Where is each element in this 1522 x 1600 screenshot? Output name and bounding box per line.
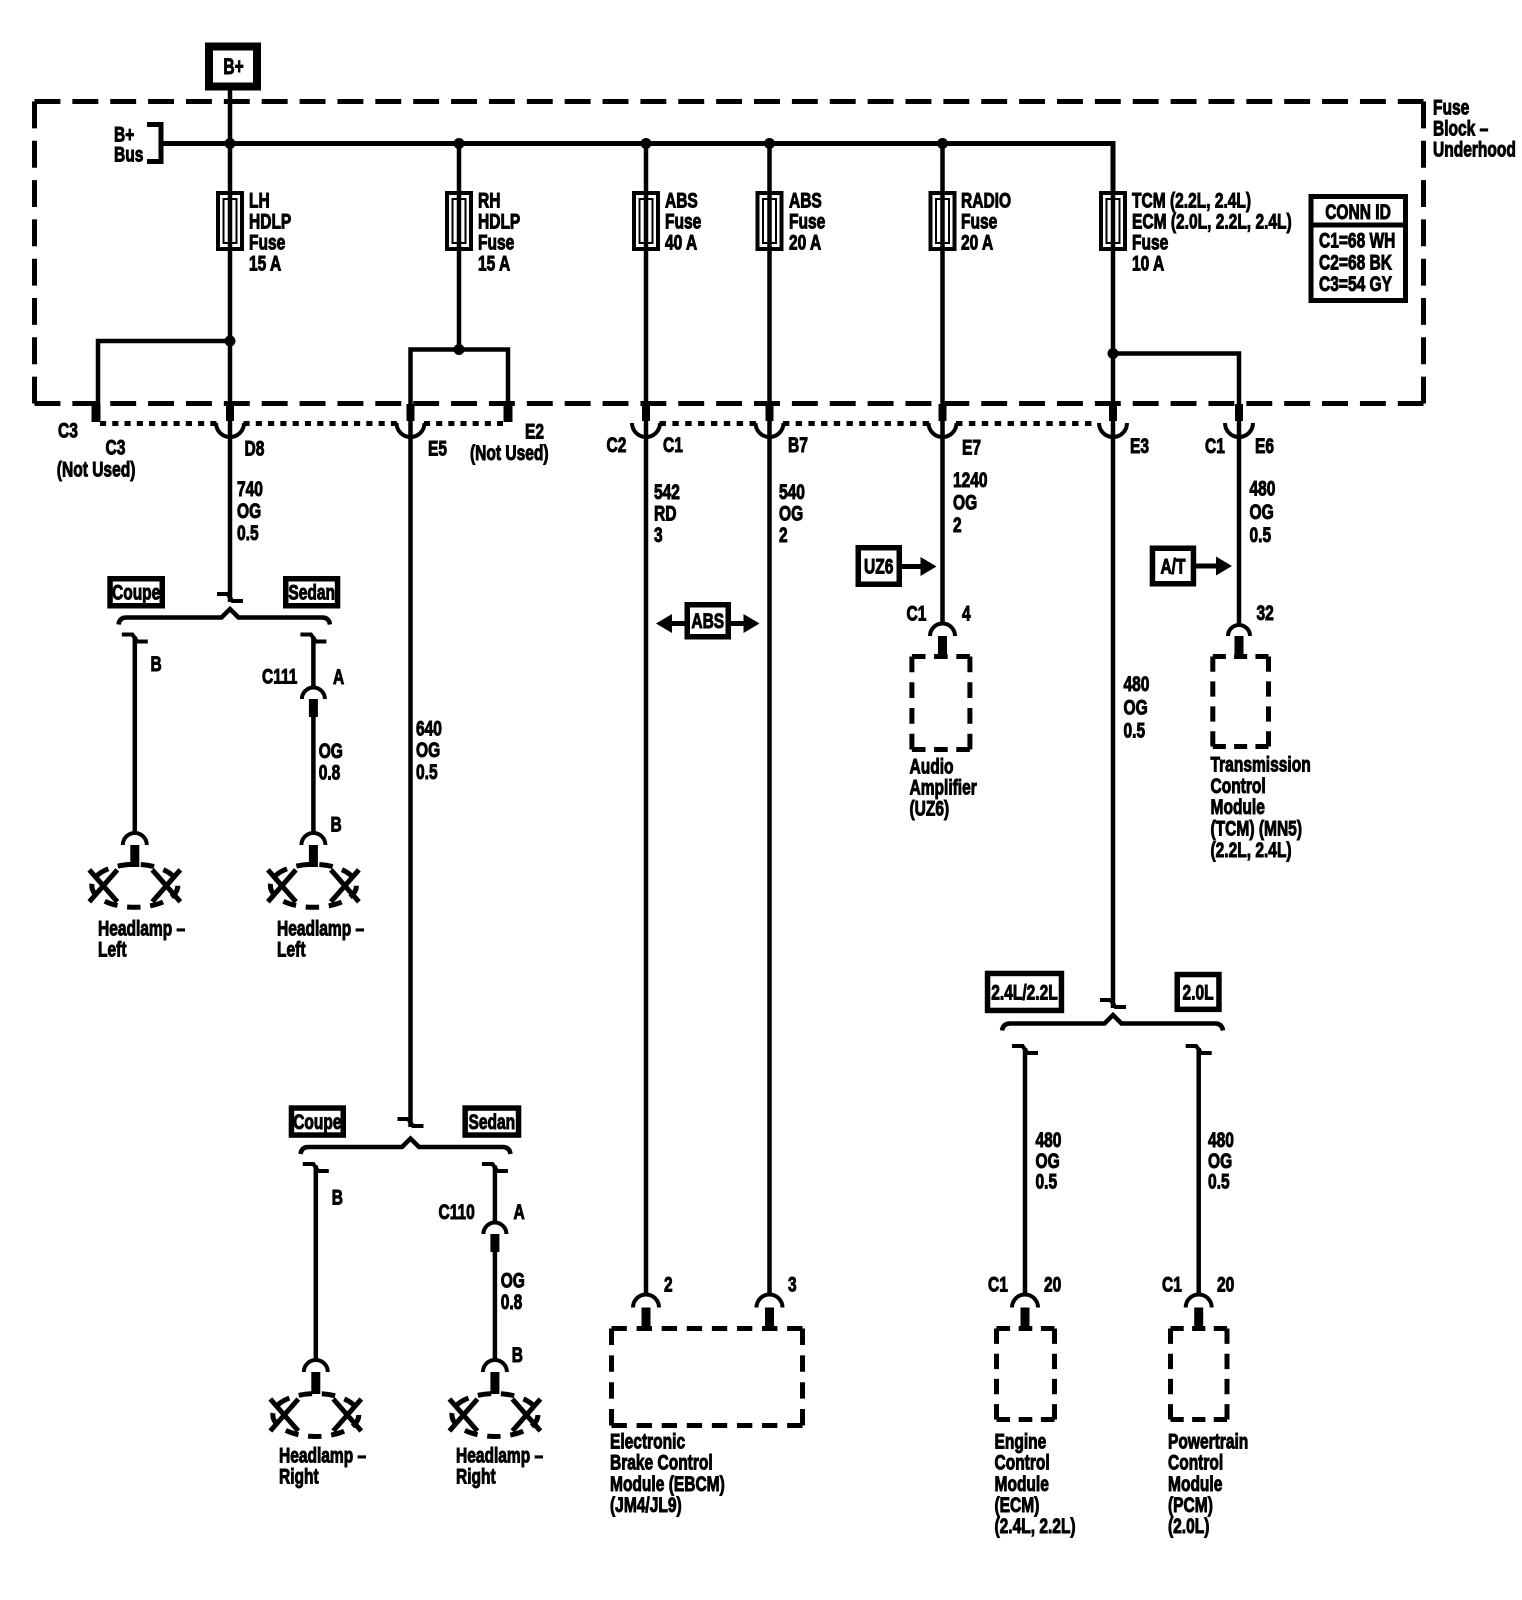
CONN ID legend table (1309, 197, 1409, 301)
label RH HDLP fuse (478, 190, 520, 276)
junction RH jumper (454, 344, 465, 355)
svg-text:Audio: Audio (910, 756, 954, 779)
label Transmission Control Module (1211, 754, 1311, 863)
junction bus / RH HDLP (454, 138, 465, 149)
option box 2.0L (1177, 975, 1219, 1010)
svg-text:Fuse: Fuse (478, 232, 514, 255)
svg-text:4: 4 (962, 603, 971, 626)
svg-text:Coupe: Coupe (293, 1111, 341, 1134)
label Headlamp Left sedan (277, 918, 364, 962)
svg-text:Sedan: Sedan (469, 1111, 516, 1134)
connector right headlamp coupe terminal B (304, 1360, 328, 1394)
svg-text:Amplifier: Amplifier (910, 777, 977, 800)
svg-text:(2.4L, 2.2L): (2.4L, 2.2L) (995, 1515, 1076, 1538)
module ECM dashed box (997, 1329, 1055, 1420)
junction TCM jumper (1108, 348, 1119, 359)
svg-text:2.0L: 2.0L (1183, 981, 1214, 1004)
svg-text:(Not Used): (Not Used) (470, 442, 549, 465)
svg-text:ABS: ABS (789, 190, 822, 213)
arrow ABS to 20A wire (730, 614, 760, 633)
svg-text:OG: OG (319, 740, 343, 763)
svg-text:740: 740 (237, 478, 263, 501)
fuse RADIO 20A (931, 193, 955, 249)
svg-text:Fuse: Fuse (961, 211, 997, 234)
wire ABS 20A feed to EBCM (767, 144, 772, 1295)
module EBCM dashed box (612, 1329, 803, 1426)
module Audio Amplifier dashed box (912, 657, 970, 750)
svg-text:Right: Right (279, 1466, 319, 1489)
connector left headlamp sedan terminal B (301, 833, 325, 867)
svg-text:CONN ID: CONN ID (1325, 201, 1391, 224)
svg-text:Fuse: Fuse (1132, 232, 1168, 255)
svg-text:B: B (331, 814, 342, 837)
terminal C3 not used (92, 404, 101, 422)
svg-text:15 A: 15 A (478, 253, 510, 276)
svg-text:C1: C1 (988, 1274, 1008, 1297)
label Fuse Block - Underhood (1433, 97, 1516, 162)
svg-text:2.4L/2.2L: 2.4L/2.2L (991, 981, 1058, 1004)
svg-text:Left: Left (277, 939, 306, 962)
label PCM (1168, 1431, 1248, 1539)
label RADIO fuse (961, 190, 1011, 255)
svg-text:Module (EBCM): Module (EBCM) (610, 1473, 725, 1496)
label B+ Bus (114, 124, 143, 167)
label TCM/ECM fuse (1132, 190, 1292, 276)
svg-text:OG: OG (953, 492, 977, 515)
option box A/T (1152, 548, 1193, 584)
svg-text:(UZ6): (UZ6) (910, 798, 950, 821)
svg-text:Bus: Bus (114, 144, 143, 167)
svg-text:Sedan: Sedan (288, 582, 335, 605)
svg-text:E5: E5 (428, 438, 447, 461)
label wire 480 OG 0.5 E3 (1124, 673, 1150, 743)
label wire 640 OG 0.5 (416, 718, 442, 785)
svg-text:(TCM) (MN5): (TCM) (MN5) (1211, 818, 1303, 841)
svg-text:(2.0L): (2.0L) (1168, 1515, 1209, 1538)
svg-text:RH: RH (478, 190, 501, 213)
svg-text:0.5: 0.5 (1250, 524, 1272, 547)
wire break 2.0L branch (1186, 1046, 1212, 1053)
fuse block connector row dotted line (100, 421, 1092, 426)
terminal E2 not used (504, 404, 513, 422)
svg-text:3: 3 (788, 1274, 797, 1297)
svg-text:Control: Control (1168, 1452, 1223, 1475)
option box Coupe 2 (291, 1108, 343, 1135)
label wire 480 OG 0.5 ECM (1036, 1129, 1062, 1194)
svg-text:ECM (2.0L, 2.2L, 2.4L): ECM (2.0L, 2.2L, 2.4L) (1132, 211, 1292, 234)
junction bus / ABS 20A (764, 138, 775, 149)
svg-text:2: 2 (664, 1274, 673, 1297)
svg-text:Fuse: Fuse (665, 211, 701, 234)
svg-text:0.5: 0.5 (1036, 1171, 1058, 1194)
svg-text:C3=54 GY: C3=54 GY (1319, 273, 1392, 296)
svg-text:1240: 1240 (953, 469, 988, 492)
wire sedan branch to C110 (493, 1166, 498, 1224)
svg-text:20 A: 20 A (961, 232, 993, 255)
svg-text:ABS: ABS (665, 190, 698, 213)
label ABS fuse 40A (665, 190, 701, 255)
svg-text:540: 540 (779, 481, 805, 504)
label wire OG 0.8 C111 (319, 740, 343, 785)
svg-text:480: 480 (1124, 673, 1150, 696)
svg-text:32: 32 (1257, 602, 1274, 625)
svg-text:(JM4/JL9): (JM4/JL9) (610, 1494, 682, 1517)
svg-text:C1=68 WH: C1=68 WH (1319, 230, 1395, 253)
connector E5 (397, 404, 425, 437)
svg-text:OG: OG (1124, 697, 1148, 720)
connector C1 (C2 side) (632, 404, 660, 437)
svg-text:B+: B+ (223, 54, 243, 79)
svg-text:OG: OG (501, 1270, 525, 1293)
svg-text:Headlamp –: Headlamp – (456, 1445, 543, 1468)
wire break sedan branch 2 (482, 1164, 508, 1171)
junction bus / RADIO (937, 138, 948, 149)
connector C111 (302, 688, 325, 718)
svg-text:OG: OG (416, 739, 440, 762)
svg-text:0.5: 0.5 (416, 761, 438, 784)
wire break TCM/ECM harness (1100, 1000, 1126, 1007)
wire B+ bus horizontal (161, 144, 1113, 193)
svg-text:Coupe: Coupe (112, 582, 160, 605)
svg-text:C1: C1 (907, 603, 927, 626)
svg-text:E2: E2 (525, 421, 544, 444)
option box Sedan 1 (286, 579, 338, 606)
label Headlamp Right sedan (456, 1445, 543, 1489)
headlamp right (coupe) lamp symbol (270, 1394, 361, 1437)
svg-text:480: 480 (1250, 478, 1276, 501)
B+ bus bar bracket (147, 125, 161, 162)
option box Sedan 2 (465, 1108, 518, 1135)
fuse TCM/ECM 10A (1101, 193, 1125, 249)
svg-text:Fuse: Fuse (789, 211, 825, 234)
option box Coupe 1 (110, 579, 162, 606)
svg-text:C3: C3 (106, 437, 126, 460)
svg-text:20 A: 20 A (789, 232, 821, 255)
svg-text:C3: C3 (58, 420, 78, 443)
svg-text:E7: E7 (962, 437, 981, 460)
label wire OG 0.8 C110 (501, 1270, 525, 1315)
wire break coupe branch 2 (303, 1164, 329, 1171)
connector C110 (483, 1223, 506, 1253)
wire coupe branch to right headlamp (314, 1166, 319, 1363)
harness split brace 1 (119, 609, 331, 625)
svg-text:C1: C1 (663, 434, 683, 457)
svg-text:OG: OG (1250, 501, 1274, 524)
svg-text:TCM (2.2L, 2.4L): TCM (2.2L, 2.4L) (1132, 190, 1251, 213)
connector right headlamp sedan terminal B (483, 1360, 507, 1394)
junction bus / LH HDLP (225, 138, 236, 149)
svg-text:Right: Right (456, 1466, 496, 1489)
wire TCM/ECM feed down (1111, 144, 1116, 1009)
connector PCM C1 pin 20 (1186, 1295, 1212, 1327)
svg-text:0.5: 0.5 (1208, 1171, 1230, 1194)
junction LH jumper (225, 336, 236, 347)
label ECM (995, 1431, 1076, 1539)
junction bus / ABS 40A (641, 138, 652, 149)
svg-text:Control: Control (995, 1452, 1050, 1475)
wire C111 to left headlamp sedan (311, 717, 316, 835)
option box ABS (687, 605, 728, 637)
harness split brace 2 (301, 1139, 511, 1155)
label wire 480 OG 0.5 PCM (1208, 1129, 1234, 1194)
svg-text:20: 20 (1217, 1274, 1234, 1297)
svg-text:Transmission: Transmission (1211, 754, 1311, 777)
connector B7 (756, 404, 784, 437)
svg-text:RD: RD (654, 503, 677, 526)
wire break coupe branch 1 (122, 635, 148, 642)
arrow UZ6 to radio wire (902, 557, 937, 576)
wire break E5 harness (398, 1119, 424, 1126)
svg-text:B: B (151, 653, 162, 676)
svg-text:40 A: 40 A (665, 232, 697, 255)
label EBCM (610, 1431, 725, 1518)
svg-text:480: 480 (1036, 1129, 1062, 1152)
wire to ECM (1023, 1048, 1028, 1295)
svg-text:ABS: ABS (691, 610, 724, 633)
connector audio amplifier C1 pin 4 (930, 623, 955, 655)
svg-text:LH: LH (249, 190, 270, 213)
wire C110 to right headlamp sedan (493, 1252, 498, 1362)
svg-text:B7: B7 (788, 434, 808, 457)
svg-text:RADIO: RADIO (961, 190, 1011, 213)
svg-text:C111: C111 (262, 666, 298, 689)
label wire 542 RD 3 (654, 481, 680, 547)
svg-text:480: 480 (1208, 1129, 1234, 1152)
label wire 540 OG 2 (779, 481, 805, 547)
svg-text:Control: Control (1211, 775, 1266, 798)
svg-text:Headlamp –: Headlamp – (98, 918, 185, 941)
fuse LH HDLP 15A (218, 193, 242, 249)
headlamp left (coupe) lamp symbol (89, 864, 180, 907)
svg-text:20: 20 (1044, 1274, 1061, 1297)
wire sedan branch to C111 (311, 637, 316, 689)
svg-text:Engine: Engine (995, 1431, 1047, 1454)
svg-text:A/T: A/T (1160, 555, 1185, 578)
svg-text:(2.2L, 2.4L): (2.2L, 2.4L) (1211, 839, 1292, 862)
svg-text:C110: C110 (439, 1201, 475, 1224)
module PCM dashed box (1171, 1329, 1228, 1420)
wire break 2.4L branch (1012, 1046, 1038, 1053)
label ABS fuse 20A (789, 190, 825, 255)
label LH HDLP fuse (249, 190, 291, 276)
svg-text:(ECM): (ECM) (995, 1494, 1040, 1517)
svg-text:UZ6: UZ6 (864, 555, 893, 578)
connector TCM pin 32 (1228, 625, 1250, 654)
wire E5 feed down to break (408, 404, 413, 1127)
svg-text:542: 542 (654, 481, 680, 504)
module TCM dashed box (1213, 657, 1269, 747)
svg-text:E3: E3 (1130, 435, 1149, 458)
svg-text:2: 2 (953, 514, 962, 537)
svg-text:0.8: 0.8 (501, 1291, 523, 1314)
label wire 480 OG 0.5 E6 (1250, 478, 1276, 548)
connector D8 (216, 404, 244, 437)
svg-text:OG: OG (237, 500, 261, 523)
svg-text:0.5: 0.5 (237, 522, 259, 545)
svg-text:Fuse: Fuse (249, 232, 285, 255)
fuse ABS 40A (634, 193, 658, 249)
label Headlamp Left coupe (98, 918, 185, 962)
wire jumper LH HDLP to C3 not used (98, 341, 230, 404)
svg-text:15 A: 15 A (249, 253, 281, 276)
arrow ABS to 40A wire (656, 614, 686, 633)
label Audio Amplifier (910, 756, 977, 821)
connector E7 (929, 404, 957, 437)
label Headlamp Right coupe (279, 1445, 366, 1489)
svg-text:640: 640 (416, 718, 442, 741)
svg-text:Module: Module (995, 1473, 1049, 1496)
option box 2.4L/2.2L (988, 973, 1062, 1010)
svg-text:10 A: 10 A (1132, 253, 1164, 276)
svg-text:Underhood: Underhood (1433, 139, 1516, 162)
label wire 1240 OG 2 (953, 469, 988, 537)
svg-text:OG: OG (779, 503, 803, 526)
wire break D8 harness (217, 594, 243, 601)
wire jumper TCM fuse to E6 branch (1113, 354, 1239, 425)
wire RADIO feed to audio amplifier (940, 144, 945, 625)
svg-text:HDLP: HDLP (478, 211, 520, 234)
svg-text:E6: E6 (1255, 435, 1274, 458)
svg-text:Fuse: Fuse (1433, 97, 1469, 120)
svg-text:Electronic: Electronic (610, 1431, 685, 1454)
svg-text:Brake Control: Brake Control (610, 1452, 713, 1475)
headlamp left (sedan) lamp symbol (268, 864, 359, 907)
svg-text:B: B (512, 1344, 523, 1367)
svg-text:C1: C1 (1162, 1274, 1182, 1297)
fuse block underhood dashed enclosure (35, 102, 1424, 404)
B+ battery terminal (209, 47, 257, 87)
fuse RH HDLP 15A (447, 193, 471, 249)
svg-text:3: 3 (654, 524, 663, 547)
svg-text:C2: C2 (607, 434, 627, 457)
wire break sedan branch 1 (300, 635, 326, 642)
headlamp right (sedan) lamp symbol (449, 1394, 540, 1437)
svg-text:A: A (514, 1201, 525, 1224)
svg-text:Block –: Block – (1433, 118, 1489, 141)
wire E6 to TCM connector (1237, 424, 1242, 625)
svg-text:Left: Left (98, 939, 127, 962)
connector left headlamp coupe terminal B (123, 833, 147, 867)
svg-text:Module: Module (1211, 796, 1265, 819)
svg-text:C1: C1 (1205, 435, 1225, 458)
connector EBCM pin 3 (757, 1295, 783, 1327)
connector EBCM pin 2 (633, 1295, 659, 1327)
svg-text:(PCM): (PCM) (1168, 1494, 1213, 1517)
wire RH HDLP feed (457, 144, 462, 350)
svg-text:2: 2 (779, 524, 788, 547)
svg-text:Headlamp –: Headlamp – (279, 1445, 366, 1468)
wire coupe branch to left headlamp (133, 637, 138, 836)
wire jumper RH HDLP to E5 and E2 (411, 350, 509, 405)
svg-text:0.8: 0.8 (319, 762, 341, 785)
svg-text:HDLP: HDLP (249, 211, 291, 234)
label wire 740 OG 0.5 (237, 478, 263, 545)
svg-text:B: B (332, 1187, 343, 1210)
option box UZ6 (858, 548, 899, 585)
connector E6 (1225, 404, 1253, 437)
connector E3 (1099, 404, 1127, 437)
svg-text:Headlamp –: Headlamp – (277, 918, 364, 941)
fuse ABS 20A (758, 193, 782, 249)
svg-text:D8: D8 (245, 438, 265, 461)
svg-text:Module: Module (1168, 1473, 1222, 1496)
wire ABS 40A feed to EBCM (644, 144, 649, 1295)
harness split brace 3 (1002, 1015, 1223, 1031)
svg-text:0.5: 0.5 (1124, 720, 1146, 743)
svg-text:(Not Used): (Not Used) (57, 459, 136, 482)
wire to PCM (1196, 1048, 1201, 1295)
wire LH HDLP feed from B+ to break (228, 88, 233, 602)
arrow A/T to E6 wire (1196, 557, 1232, 576)
svg-text:A: A (333, 666, 344, 689)
svg-text:Powertrain: Powertrain (1168, 1431, 1248, 1454)
svg-text:C2=68 BK: C2=68 BK (1319, 252, 1392, 275)
connector ECM C1 pin 20 (1012, 1295, 1038, 1327)
